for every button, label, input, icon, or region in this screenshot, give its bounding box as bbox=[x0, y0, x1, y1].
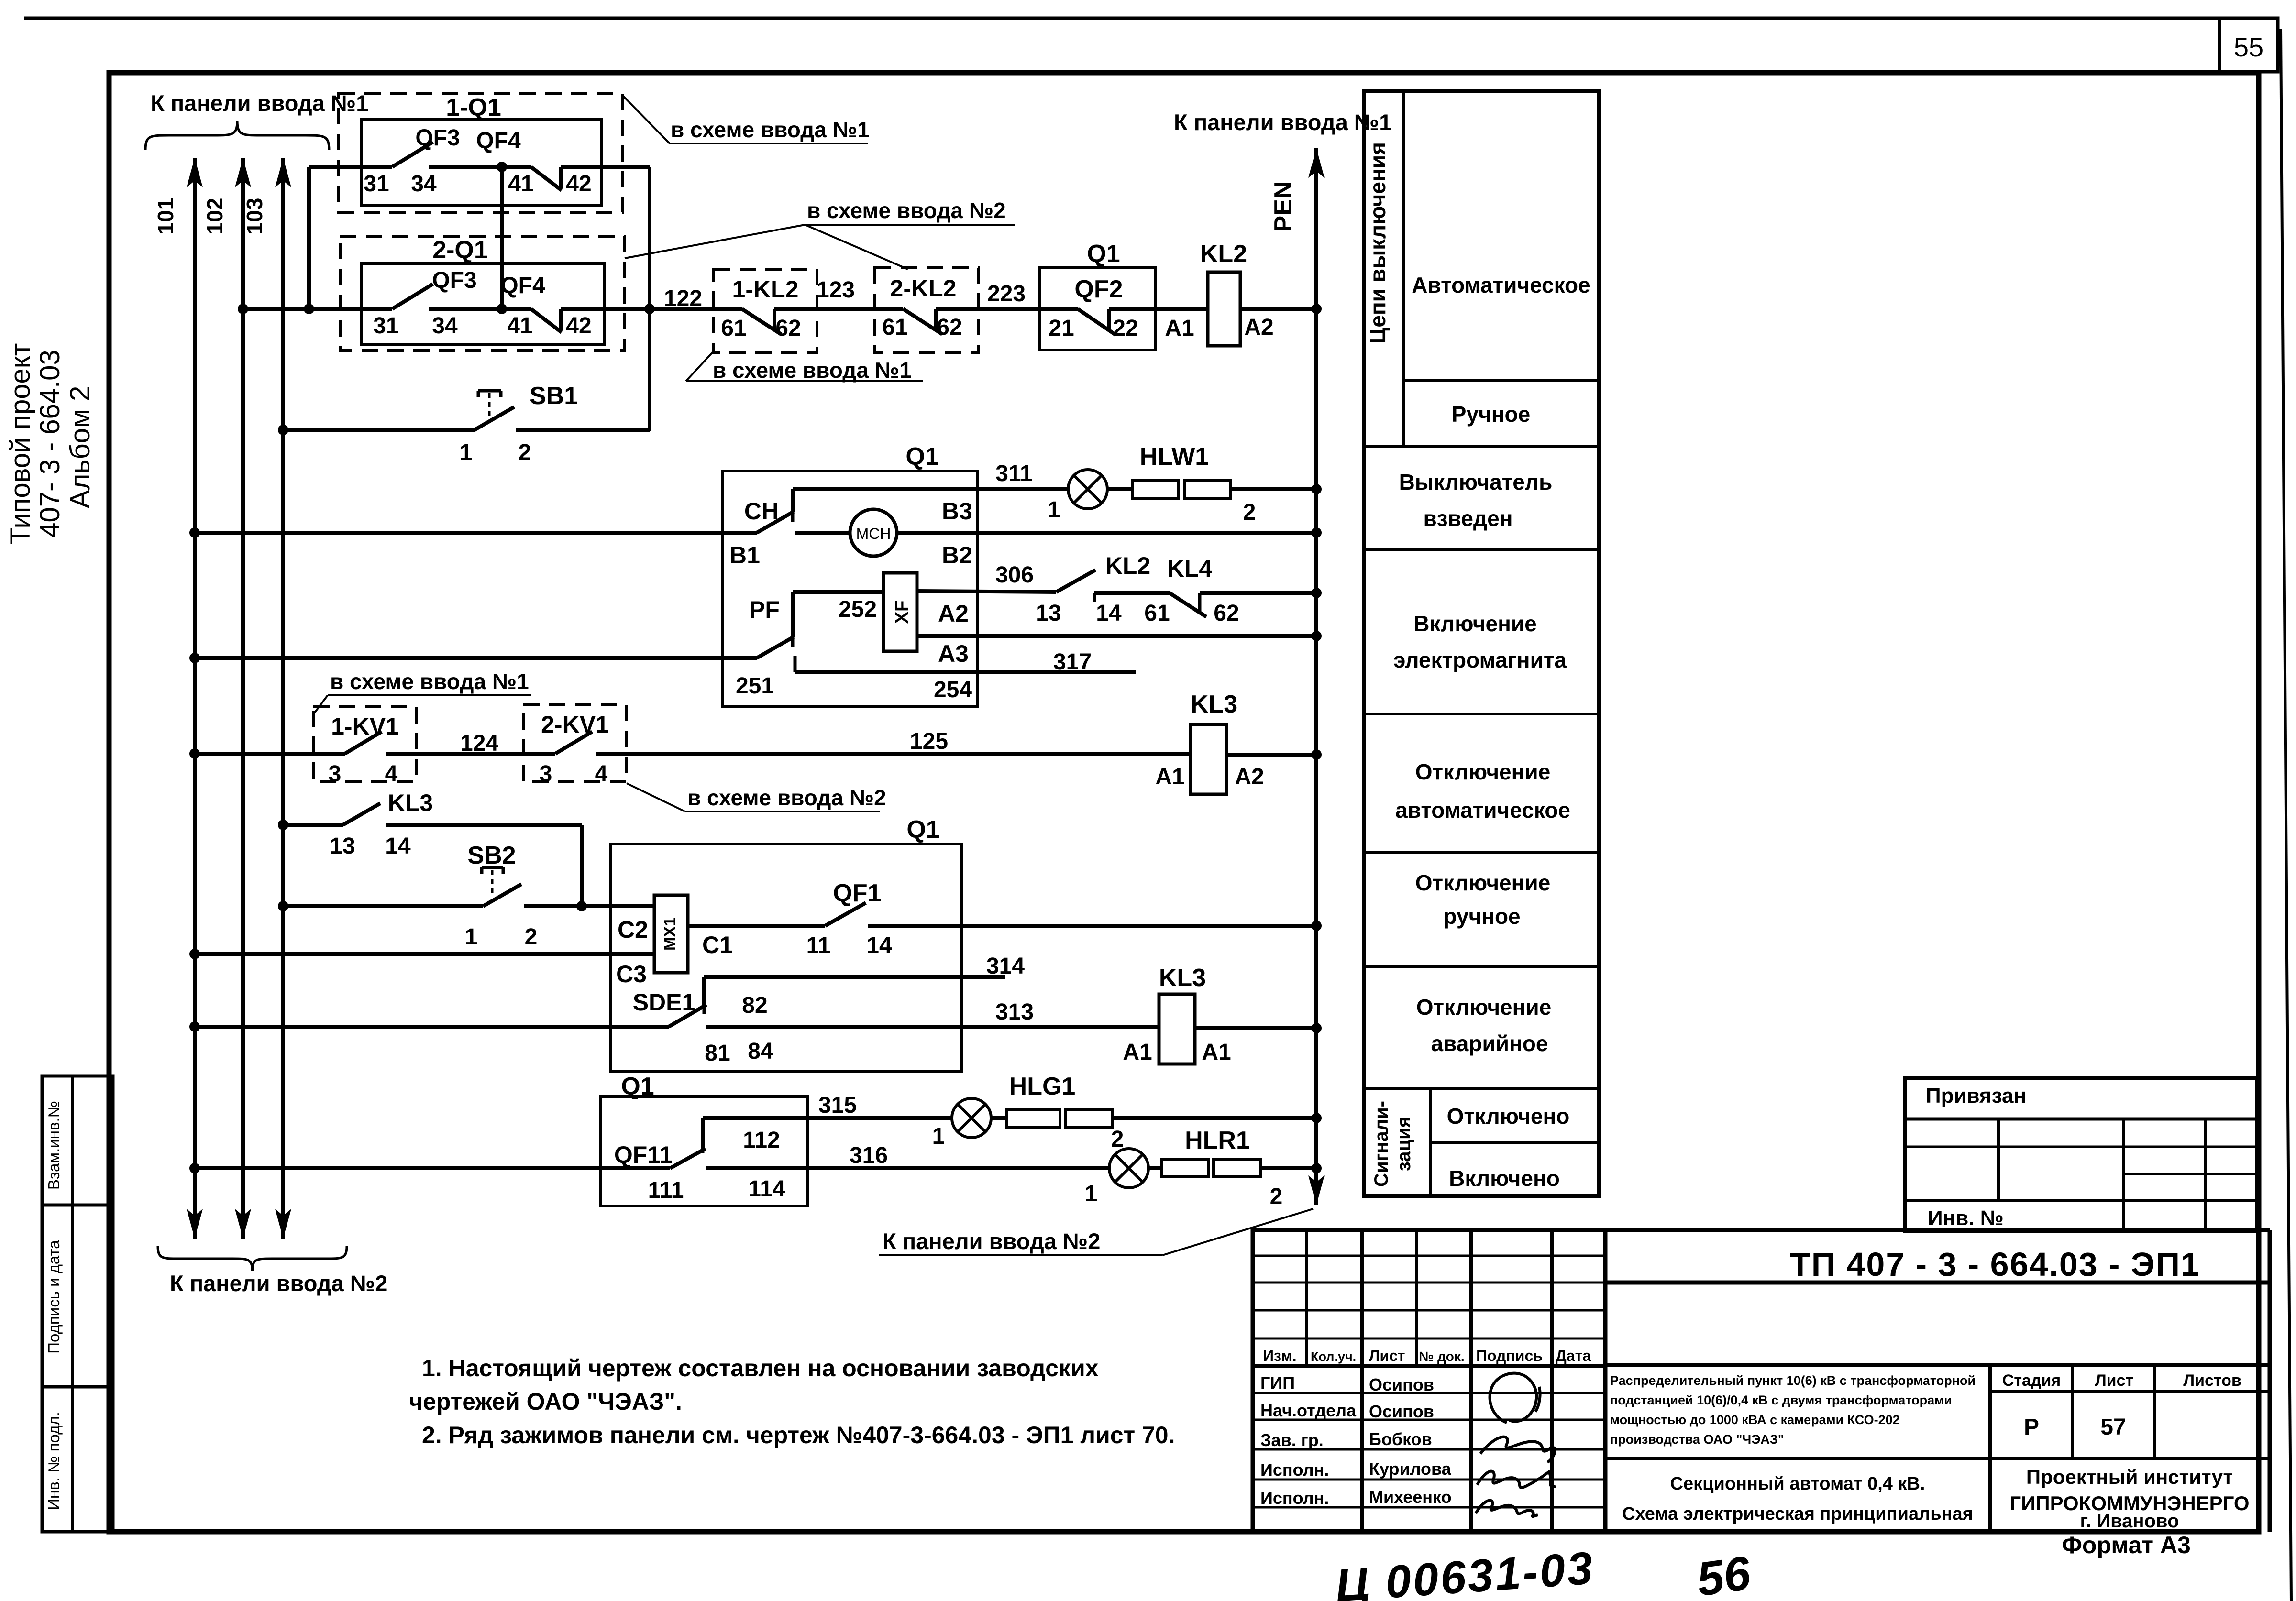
svg-text:KL4: KL4 bbox=[1167, 555, 1213, 582]
wire CH riser to B3 bbox=[791, 489, 795, 512]
wire B2 row to PEN bus bbox=[897, 531, 1316, 535]
contact QF3 blade (2-Q1) bbox=[392, 284, 433, 309]
top border line bbox=[24, 17, 2219, 20]
lamp HLW1 bbox=[1068, 470, 1107, 509]
svg-text:2: 2 bbox=[1111, 1127, 1124, 1152]
svg-text:34: 34 bbox=[411, 171, 437, 197]
svg-text:62: 62 bbox=[1214, 601, 1239, 626]
resistor HLW1 a bbox=[1107, 487, 1133, 491]
svg-text:Формат А3: Формат А3 bbox=[2062, 1532, 2191, 1558]
relay contact 1-KL2 dashed box bbox=[714, 269, 817, 353]
svg-text:МСН: МСН bbox=[856, 525, 891, 542]
node 1-Q1 drop joins bus bbox=[304, 304, 314, 314]
node PEN bus row 122 bbox=[1311, 304, 1322, 314]
svg-text:14: 14 bbox=[1096, 601, 1122, 626]
svg-text:А3: А3 bbox=[938, 640, 969, 667]
svg-text:62: 62 bbox=[937, 315, 962, 340]
svg-text:11: 11 bbox=[806, 933, 831, 958]
wire PF riser to 252 bbox=[791, 592, 795, 637]
svg-text:Взам.инв.№: Взам.инв.№ bbox=[45, 1101, 63, 1190]
svg-text:41: 41 bbox=[508, 171, 533, 197]
wire 316 row resumed bbox=[706, 1166, 1109, 1170]
wire SB2 row bbox=[278, 901, 288, 911]
svg-text:HLG1: HLG1 bbox=[1009, 1073, 1076, 1100]
svg-text:1-KL2: 1-KL2 bbox=[732, 276, 799, 303]
brace top left bbox=[145, 121, 237, 150]
svg-text:103: 103 bbox=[242, 198, 267, 235]
signature scribbles bbox=[1490, 1373, 1540, 1423]
svg-text:мощностью до 1000 кВА с камера: мощностью до 1000 кВА с камерами КСО-202 bbox=[1610, 1413, 1900, 1427]
svg-text:A1: A1 bbox=[1165, 316, 1194, 341]
svg-text:К панели ввода №1: К панели ввода №1 bbox=[1174, 110, 1391, 135]
sig row divider bbox=[1430, 1141, 1599, 1144]
wire 2-Q1 mid bbox=[429, 307, 502, 311]
wire SDE1-82 riser bbox=[702, 977, 706, 1005]
left margin stamp column bbox=[42, 1076, 113, 1532]
svg-text:С1: С1 bbox=[702, 932, 733, 958]
svg-text:в схеме ввода №1: в схеме ввода №1 bbox=[713, 358, 912, 383]
node PEN bus row 306 bbox=[1311, 588, 1322, 598]
wire QF2 to KL2 coil bbox=[1109, 307, 1208, 311]
wire 223 bbox=[936, 307, 1078, 311]
contact 1-KL2 blade bbox=[742, 309, 781, 334]
svg-text:Подпись и дата: Подпись и дата bbox=[45, 1240, 63, 1354]
function table header divider bbox=[1402, 91, 1405, 447]
svg-text:QF4: QF4 bbox=[500, 273, 545, 298]
wire 313 row after SDE1 bbox=[706, 1025, 1159, 1029]
svg-text:производства ОАО "ЧЭАЗ": производства ОАО "ЧЭАЗ" bbox=[1610, 1432, 1784, 1447]
svg-text:KL2: KL2 bbox=[1200, 240, 1247, 268]
voltage relay contact 2-KV1 dashed box bbox=[523, 705, 627, 782]
breaker aux box Q1 upper bbox=[722, 471, 978, 706]
pushbutton SB2 plunger bbox=[482, 866, 503, 869]
svg-text:2. Ряд зажимов панели см. чер: 2. Ряд зажимов панели см. чертеж №407-3-… bbox=[422, 1422, 1175, 1448]
svg-text:QF2: QF2 bbox=[1074, 275, 1123, 303]
wire 252 bbox=[793, 590, 883, 594]
contact 2-KL2 blade bbox=[903, 309, 942, 334]
sig col divider bbox=[1429, 1089, 1432, 1196]
svg-text:A2: A2 bbox=[1244, 315, 1273, 340]
svg-text:Включено: Включено bbox=[1449, 1166, 1560, 1191]
row sep ruch/vykl bbox=[1364, 445, 1599, 448]
svg-text:Инв. № подл.: Инв. № подл. bbox=[45, 1412, 63, 1510]
svg-text:223: 223 bbox=[987, 281, 1026, 307]
svg-text:в схеме ввода №2: в схеме ввода №2 bbox=[807, 198, 1006, 223]
breaker unit 2-Q1 dashed box bbox=[340, 236, 625, 351]
svg-text:56: 56 bbox=[1693, 1546, 1754, 1601]
wire B3 row bbox=[793, 487, 1068, 491]
relay coil KL3 (313 row) bbox=[1159, 994, 1195, 1064]
svg-text:Осипов: Осипов bbox=[1369, 1402, 1434, 1421]
wire SB1 row from 103 shaft bbox=[278, 425, 288, 435]
svg-text:Исполн.: Исполн. bbox=[1260, 1460, 1329, 1480]
pushbutton SB2 blade bbox=[483, 884, 521, 906]
svg-text:г. Иваново: г. Иваново bbox=[2080, 1511, 2179, 1532]
svg-text:61: 61 bbox=[721, 316, 746, 341]
svg-text:254: 254 bbox=[934, 677, 972, 702]
wire 2-Q1 right exit bbox=[561, 307, 650, 311]
svg-text:А1: А1 bbox=[1202, 1040, 1231, 1065]
resistor HLG1 a bbox=[991, 1116, 1007, 1120]
svg-text:55: 55 bbox=[2234, 32, 2263, 62]
svg-text:2-KL2: 2-KL2 bbox=[890, 275, 957, 302]
svg-text:102: 102 bbox=[202, 198, 227, 235]
wire KL3 coil to PEN bus bbox=[1226, 753, 1316, 757]
wire QF11 riser to 315 bbox=[701, 1118, 705, 1149]
row sep vkl/otk1 bbox=[1364, 713, 1599, 715]
wire SB2 to MX1 bbox=[524, 904, 654, 908]
svg-text:Осипов: Осипов bbox=[1369, 1375, 1434, 1394]
svg-text:3: 3 bbox=[329, 761, 342, 787]
contact PF blade bbox=[757, 637, 794, 658]
contact QF3 blade (1-Q1) bbox=[392, 142, 433, 167]
contact 1-KV1 blade bbox=[345, 732, 382, 754]
wire 102 vertical shaft bbox=[241, 158, 245, 1239]
svg-text:14: 14 bbox=[385, 833, 411, 859]
svg-text:31: 31 bbox=[364, 171, 389, 197]
wire B1 row bbox=[189, 527, 200, 538]
row sep otk2/otk3 bbox=[1364, 965, 1599, 968]
wire 125 bbox=[596, 752, 1191, 756]
svg-text:2: 2 bbox=[519, 440, 531, 465]
svg-text:Отключение: Отключение bbox=[1416, 995, 1552, 1020]
wire 123 bbox=[774, 307, 903, 311]
node junction 2-Q1 bbox=[497, 304, 507, 314]
wire 1-Q1 right exit bbox=[561, 165, 650, 169]
svg-text:Сигнали-: Сигнали- bbox=[1371, 1101, 1392, 1187]
svg-text:К панели ввода №2: К панели ввода №2 bbox=[883, 1228, 1100, 1254]
svg-text:KL3: KL3 bbox=[1191, 691, 1237, 718]
svg-text:QF4: QF4 bbox=[476, 128, 521, 154]
relay contact 2-KL2 dashed box bbox=[875, 268, 979, 353]
svg-text:А1: А1 bbox=[1155, 764, 1184, 790]
node PEN bus row 315 bbox=[1311, 1113, 1322, 1123]
contact QF2 blade bbox=[1078, 309, 1115, 335]
svg-text:Подпись: Подпись bbox=[1476, 1347, 1543, 1364]
voltage relay contact 1-KV1 dashed box bbox=[313, 707, 416, 782]
node SB1 branch joins bus bbox=[644, 304, 655, 314]
wire bus 122 bbox=[650, 307, 742, 311]
svg-text:Листов: Листов bbox=[2183, 1371, 2241, 1390]
row sep vykl/vkl bbox=[1364, 548, 1599, 551]
svg-text:62: 62 bbox=[775, 316, 801, 341]
svg-text:в схеме ввода №1: в схеме ввода №1 bbox=[671, 117, 870, 142]
wire A2/306 row bbox=[917, 591, 1056, 592]
contact KL2 blade (306 row) bbox=[1056, 570, 1095, 592]
svg-text:114: 114 bbox=[748, 1176, 785, 1202]
svg-text:2-Q1: 2-Q1 bbox=[432, 236, 488, 264]
wire 316 row left bbox=[189, 1163, 200, 1173]
svg-text:317: 317 bbox=[1053, 649, 1092, 675]
relay coil KL2 bbox=[1208, 272, 1240, 346]
svg-text:21: 21 bbox=[1049, 316, 1074, 341]
svg-text:взведен: взведен bbox=[1424, 506, 1513, 531]
svg-text:Курилова: Курилова bbox=[1369, 1459, 1452, 1479]
row sep otk3/sig bbox=[1364, 1087, 1599, 1090]
svg-text:QF3: QF3 bbox=[432, 268, 476, 293]
contact KL4 blade bbox=[1170, 593, 1206, 617]
svg-text:Распределительный пункт 10(6): Распределительный пункт 10(6) кВ с транс… bbox=[1610, 1373, 1976, 1388]
svg-text:Q1: Q1 bbox=[906, 816, 939, 844]
svg-text:2: 2 bbox=[1243, 500, 1256, 525]
wire SDE1 row bbox=[189, 1021, 200, 1032]
svg-text:13: 13 bbox=[330, 833, 355, 859]
wire KV1 row left bbox=[189, 748, 200, 759]
svg-text:Отключение: Отключение bbox=[1415, 759, 1551, 784]
node PEN bus row 125 bbox=[1311, 749, 1322, 760]
svg-text:4: 4 bbox=[385, 761, 398, 787]
svg-text:Включение: Включение bbox=[1413, 611, 1537, 636]
svg-text:Зав. гр.: Зав. гр. bbox=[1260, 1430, 1324, 1450]
wire bus from 102 to 2-Q1 bbox=[243, 307, 392, 311]
row sep avt/ruch bbox=[1403, 379, 1599, 382]
svg-text:подстанцией 10(6)/0,4 кВ с дву: подстанцией 10(6)/0,4 кВ с двумя трансфо… bbox=[1610, 1393, 1952, 1407]
svg-text:82: 82 bbox=[742, 993, 767, 1018]
PEN bus vertical bbox=[1314, 148, 1318, 1168]
relay coil KL3 (125 row) bbox=[1191, 724, 1226, 794]
arrow PEN bus down to panel 2 bbox=[1314, 1168, 1318, 1205]
svg-text:Михеенко: Михеенко bbox=[1369, 1487, 1452, 1507]
node PEN bus row B2 bbox=[1311, 527, 1322, 538]
contact CH blade bbox=[757, 512, 794, 533]
node PEN bus row A3 bbox=[1311, 631, 1322, 641]
svg-text:1: 1 bbox=[1085, 1181, 1098, 1206]
right scan edge line bbox=[2281, 29, 2291, 1601]
sheet number box bbox=[2219, 18, 2278, 72]
contact 2-KV1 blade bbox=[555, 732, 592, 754]
svg-text:13: 13 bbox=[1036, 601, 1061, 626]
svg-text:251: 251 bbox=[736, 673, 774, 699]
svg-text:1: 1 bbox=[932, 1124, 945, 1149]
svg-text:2-KV1: 2-KV1 bbox=[541, 711, 609, 738]
resistor HLR1 a bbox=[1148, 1166, 1161, 1170]
wire 251 row bbox=[189, 653, 200, 663]
pushbutton SB1 plunger bbox=[478, 389, 501, 393]
svg-text:31: 31 bbox=[373, 313, 398, 339]
wire HLR1 to PEN bus end bbox=[1260, 1166, 1316, 1170]
wire A3 row bbox=[917, 634, 1316, 638]
svg-text:3: 3 bbox=[540, 761, 552, 787]
node on 102 shaft bbox=[238, 304, 248, 314]
svg-text:61: 61 bbox=[882, 315, 907, 340]
wire HLW1 to PEN bus bbox=[1231, 487, 1316, 491]
svg-text:Изм.: Изм. bbox=[1263, 1347, 1297, 1364]
svg-text:аварийное: аварийное bbox=[1431, 1031, 1548, 1056]
svg-text:ТП 407 - 3 - 664.03 - ЭП1: ТП 407 - 3 - 664.03 - ЭП1 bbox=[1790, 1246, 2200, 1283]
svg-text:111: 111 bbox=[648, 1178, 684, 1203]
svg-text:Лист: Лист bbox=[1369, 1347, 1405, 1364]
svg-text:Нач.отдела: Нач.отдела bbox=[1260, 1401, 1357, 1420]
svg-text:84: 84 bbox=[748, 1039, 773, 1064]
svg-text:Кол.уч.: Кол.уч. bbox=[1311, 1349, 1356, 1364]
svg-text:SB1: SB1 bbox=[530, 382, 578, 410]
contact QF4 blade (2-Q1) bbox=[502, 307, 531, 311]
svg-text:В1: В1 bbox=[729, 542, 760, 569]
breaker aux box Q1 (QF1/MX1/SDE1) bbox=[611, 844, 961, 1071]
wire C3 row to MX1 bbox=[189, 949, 200, 959]
title block right part bbox=[1605, 1228, 2270, 1232]
node PEN bus QF1 row bbox=[1311, 921, 1322, 931]
svg-text:1-Q1: 1-Q1 bbox=[446, 94, 501, 121]
wire 1-Q1 mid drop bbox=[500, 167, 504, 309]
svg-text:Привязан: Привязан bbox=[1926, 1084, 2026, 1108]
svg-text:SDE1: SDE1 bbox=[633, 989, 695, 1016]
svg-text:314: 314 bbox=[986, 954, 1025, 979]
wire 103 vertical shaft bbox=[281, 158, 285, 1239]
node PEN bus row 313 bbox=[1311, 1023, 1322, 1033]
contact SDE1 blade bbox=[669, 1005, 706, 1027]
svg-text:HLW1: HLW1 bbox=[1140, 443, 1209, 471]
svg-text:PF: PF bbox=[749, 596, 780, 623]
svg-text:Секционный автомат 0,4 кВ.: Секционный автомат 0,4 кВ. bbox=[1670, 1474, 1925, 1494]
svg-text:1: 1 bbox=[1048, 497, 1060, 523]
svg-text:1: 1 bbox=[460, 440, 473, 465]
svg-text:2: 2 bbox=[1270, 1184, 1283, 1209]
svg-text:34: 34 bbox=[432, 313, 458, 339]
contact QF1 blade bbox=[825, 903, 866, 926]
svg-text:81: 81 bbox=[705, 1041, 730, 1066]
svg-text:МХ1: МХ1 bbox=[661, 917, 679, 951]
svg-text:Типовой проект: Типовой проект bbox=[5, 343, 36, 545]
svg-text:С3: С3 bbox=[616, 961, 647, 987]
svg-text:SB2: SB2 bbox=[467, 842, 516, 869]
svg-text:313: 313 bbox=[995, 999, 1034, 1025]
svg-text:электромагнита: электромагнита bbox=[1393, 647, 1567, 672]
motor MCH bbox=[850, 509, 897, 556]
svg-text:СН: СН bbox=[744, 498, 779, 525]
svg-text:QF11: QF11 bbox=[614, 1141, 673, 1168]
wire 1-Q1 left entry bbox=[309, 165, 392, 169]
svg-text:KL3: KL3 bbox=[388, 790, 433, 816]
svg-text:ручное: ручное bbox=[1443, 904, 1520, 929]
svg-text:316: 316 bbox=[850, 1143, 888, 1168]
svg-text:Исполн.: Исполн. bbox=[1260, 1488, 1329, 1508]
svg-text:А2: А2 bbox=[1235, 764, 1264, 790]
resistor HLG1 b bbox=[1065, 1109, 1112, 1127]
svg-text:KL3: KL3 bbox=[1159, 964, 1206, 992]
svg-text:Дата: Дата bbox=[1556, 1347, 1591, 1364]
svg-text:311: 311 bbox=[995, 461, 1032, 486]
svg-text:А2: А2 bbox=[938, 600, 969, 627]
2-Q1 contact box bbox=[361, 263, 605, 344]
closing coil MX1 bbox=[654, 895, 688, 973]
pushbutton SB1 blade bbox=[475, 407, 514, 430]
svg-text:Q1: Q1 bbox=[1087, 240, 1120, 268]
breaker aux box Q1/QF2 bbox=[1039, 268, 1156, 350]
wire KL2 coil to PEN bus bbox=[1240, 307, 1316, 311]
svg-text:41: 41 bbox=[507, 313, 532, 339]
row sep otk1/otk2 bbox=[1364, 851, 1599, 854]
wire KL3-313 to PEN bus bbox=[1195, 1026, 1316, 1030]
svg-text:Отключение: Отключение bbox=[1415, 870, 1551, 895]
svg-text:42: 42 bbox=[566, 313, 591, 339]
svg-text:PEN: PEN bbox=[1269, 181, 1297, 232]
wire 124 bbox=[386, 752, 555, 756]
wire SB1 to riser bbox=[516, 428, 650, 432]
svg-text:Схема электрическая принципиал: Схема электрическая принципиальная bbox=[1622, 1504, 1973, 1524]
wire KL4 to PEN bus bbox=[1200, 591, 1316, 595]
node PEN bus end bbox=[1311, 1163, 1322, 1173]
svg-text:В2: В2 bbox=[942, 542, 972, 569]
brace bottom left bbox=[158, 1246, 253, 1271]
wire 101 vertical shaft bbox=[193, 158, 197, 1239]
svg-text:4: 4 bbox=[595, 761, 608, 787]
wire 254/317 step bbox=[794, 656, 797, 672]
svg-text:Q1: Q1 bbox=[905, 443, 938, 471]
svg-text:№ док.: № док. bbox=[1419, 1349, 1465, 1364]
svg-text:407- 3 - 664.03: 407- 3 - 664.03 bbox=[34, 350, 66, 537]
svg-text:QF1: QF1 bbox=[833, 879, 881, 907]
function table frame bbox=[1364, 91, 1599, 1196]
svg-text:К панели ввода №2: К панели ввода №2 bbox=[170, 1271, 387, 1296]
svg-text:315: 315 bbox=[818, 1093, 857, 1118]
svg-text:автоматическое: автоматическое bbox=[1395, 798, 1570, 822]
svg-text:14: 14 bbox=[866, 933, 892, 958]
svg-text:Стадия: Стадия bbox=[2002, 1371, 2061, 1390]
svg-text:1. Настоящий чертеж составлен: 1. Настоящий чертеж составлен на основан… bbox=[422, 1355, 1099, 1382]
privyazan box bbox=[1905, 1078, 2257, 1231]
svg-text:1: 1 bbox=[465, 924, 478, 950]
svg-text:А1: А1 bbox=[1123, 1040, 1152, 1065]
svg-text:42: 42 bbox=[566, 171, 591, 197]
fuse XF bbox=[883, 573, 917, 651]
svg-text:2: 2 bbox=[525, 924, 538, 950]
wire 1-Q1 right drop bbox=[648, 167, 651, 431]
svg-text:123: 123 bbox=[817, 277, 855, 303]
svg-text:Лист: Лист bbox=[2095, 1371, 2133, 1390]
wire B1 to MCH bbox=[795, 531, 850, 535]
svg-text:61: 61 bbox=[1144, 601, 1170, 626]
svg-text:зация: зация bbox=[1393, 1117, 1414, 1171]
contact QF4 blade (1-Q1) bbox=[502, 165, 531, 169]
node junction 1-Q1 bbox=[497, 162, 507, 172]
svg-text:XF: XF bbox=[892, 601, 912, 624]
svg-text:306: 306 bbox=[995, 562, 1034, 588]
title block changes table bbox=[1253, 1230, 1605, 1532]
wire KL3-14 to SB2 branch bbox=[386, 823, 582, 827]
svg-text:Отключено: Отключено bbox=[1447, 1104, 1570, 1129]
svg-text:252: 252 bbox=[839, 597, 877, 622]
svg-text:в схеме ввода №1: в схеме ввода №1 bbox=[330, 669, 529, 694]
breaker aux box Q1 (QF11) bbox=[601, 1097, 808, 1206]
svg-text:С2: С2 bbox=[618, 916, 648, 943]
wire KL3 contact row bbox=[278, 820, 288, 830]
wire 14 to KL4 bbox=[1094, 591, 1170, 595]
contact KL3 blade bbox=[343, 803, 380, 825]
svg-text:112: 112 bbox=[743, 1128, 780, 1153]
svg-text:К панели ввода №1: К панели ввода №1 bbox=[151, 90, 368, 116]
wire HLG1 to PEN bus bbox=[1112, 1116, 1316, 1120]
svg-text:в схеме ввода №2: в схеме ввода №2 bbox=[687, 785, 886, 810]
svg-text:HLR1: HLR1 bbox=[1185, 1127, 1250, 1154]
svg-text:Бобков: Бобков bbox=[1369, 1429, 1432, 1449]
node PEN bus row 311 bbox=[1311, 484, 1322, 494]
wire QF1-14 to PEN bus bbox=[868, 924, 1316, 928]
svg-text:чертежей ОАО "ЧЭАЗ".: чертежей ОАО "ЧЭАЗ". bbox=[409, 1388, 682, 1415]
resistor HLR1 b bbox=[1214, 1159, 1260, 1177]
1-Q1 contact box bbox=[361, 119, 601, 206]
breaker unit 1-Q1 dashed box bbox=[339, 94, 623, 212]
svg-text:Р: Р bbox=[2024, 1415, 2039, 1440]
svg-text:Цепи выключения: Цепи выключения bbox=[1365, 142, 1390, 344]
contact QF11 blade bbox=[670, 1149, 706, 1168]
svg-text:Альбом 2: Альбом 2 bbox=[65, 386, 96, 508]
svg-text:Проектный институт: Проектный институт bbox=[2026, 1466, 2233, 1488]
svg-text:ГИП: ГИП bbox=[1260, 1373, 1295, 1393]
svg-text:125: 125 bbox=[910, 729, 948, 754]
svg-text:Инв. №: Инв. № bbox=[1928, 1206, 2004, 1230]
resistor HLW1 b bbox=[1185, 481, 1231, 498]
